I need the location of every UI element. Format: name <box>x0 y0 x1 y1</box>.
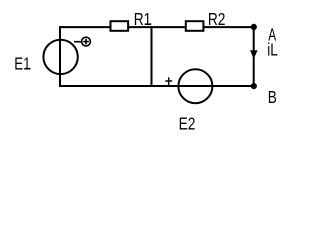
wire right branch (A to B) <box>253 26 255 87</box>
E1 polarity marker: dash and circled plus <box>74 37 90 46</box>
voltage source E2 <box>178 69 212 103</box>
resistor R1 <box>111 21 129 31</box>
svg-text:E1: E1 <box>14 55 30 74</box>
wire top rail <box>60 26 254 28</box>
svg-text:B: B <box>268 88 277 107</box>
current arrow iL <box>250 50 258 59</box>
resistor R2 <box>186 21 204 31</box>
svg-text:R1: R1 <box>134 10 152 29</box>
label R1 <box>134 10 152 29</box>
wire middle branch <box>151 26 153 87</box>
wire bottom rail <box>60 85 254 87</box>
svg-text:R2: R2 <box>208 11 226 30</box>
svg-text:iL: iL <box>267 41 278 60</box>
E2 polarity plus <box>165 77 172 85</box>
node A junction dot <box>251 24 257 30</box>
voltage source E1 <box>43 40 77 74</box>
svg-text:E2: E2 <box>179 115 196 134</box>
wire left branch through E1 <box>59 26 61 87</box>
node B junction dot <box>251 83 257 89</box>
label E1 <box>14 55 30 74</box>
